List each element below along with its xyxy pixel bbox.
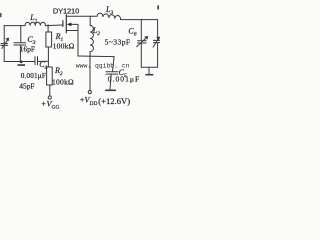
svg-text:+VDD(+12.6V): +VDD(+12.6V) bbox=[80, 96, 130, 107]
svg-text:45pF: 45pF bbox=[19, 81, 34, 90]
svg-text:100kΩ: 100kΩ bbox=[53, 41, 75, 50]
wire: top tank wire left segment bbox=[4, 25, 25, 27]
wire: source lead bbox=[66, 30, 78, 32]
wire: link between bus and R2 bbox=[47, 61, 49, 67]
wire: VDD feed down bbox=[89, 56, 91, 90]
transistor DY1210: substrate arrow bbox=[67, 23, 72, 27]
svg-text:0.001μF: 0.001μF bbox=[108, 75, 140, 84]
wire: left vertical branch lower bbox=[3, 46, 5, 62]
svg-text:+VGG: +VGG bbox=[41, 99, 59, 110]
wire: C3 bottom lead bbox=[19, 45, 21, 62]
wire: C5 drop from bypass bus bbox=[113, 57, 115, 72]
wire: C6 branch lower bbox=[140, 43, 142, 67]
wire: gate wire from L1 to transistor bbox=[46, 24, 63, 27]
variable capacitor C7 (right edge) bbox=[153, 40, 160, 42]
transistor DY1210: channel bar segments bbox=[65, 15, 67, 33]
node: junction dot on bus at C3 bbox=[20, 60, 23, 63]
wire: substrate lead bbox=[71, 23, 78, 25]
wire: R1 bottom lead down to bus bbox=[47, 47, 49, 61]
arrow of trimmer capacitor bbox=[2, 39, 9, 49]
wire: C6 branch upper bbox=[140, 20, 142, 41]
variable capacitor C6 bbox=[138, 41, 147, 43]
wire: C5 ground stem bbox=[110, 74, 111, 89]
capacitor C3 bbox=[14, 43, 26, 45]
wire: R1 top lead bbox=[47, 26, 49, 32]
node: junction of R1 with gate wire bbox=[47, 24, 49, 26]
wire: substrate lead corner down bbox=[77, 24, 79, 30]
svg-text:100kΩ: 100kΩ bbox=[52, 77, 74, 86]
capacitor C5 bbox=[106, 72, 118, 74]
resistor R1 bbox=[46, 32, 52, 47]
cut-off label fragment at top right bbox=[157, 5, 159, 9]
ground (right tank) bbox=[148, 67, 150, 74]
inductor L2 (vertical) bbox=[90, 25, 93, 51]
arrow of variable capacitor C6 bbox=[137, 37, 148, 47]
capacitor C4 (series) bbox=[35, 57, 38, 65]
wire: source/bypass bus bbox=[78, 55, 114, 58]
arrow of variable capacitor C7 bbox=[153, 38, 159, 48]
svg-text:www. qqibb. cn: www. qqibb. cn bbox=[76, 63, 130, 70]
wire: bottom bus right segment bbox=[38, 60, 49, 62]
svg-text:16pF: 16pF bbox=[20, 45, 35, 54]
wire: top right wire bbox=[121, 19, 158, 21]
wire: source drop to bypass bus bbox=[77, 31, 79, 57]
wire: C7 branch lower bbox=[157, 43, 159, 67]
cut-off label fragment at left edge bbox=[0, 13, 2, 17]
wire: C7 branch upper bbox=[157, 20, 159, 40]
wire: C3 top lead bbox=[20, 26, 22, 43]
ground (C5) bbox=[105, 90, 116, 92]
svg-text:DY1210: DY1210 bbox=[53, 6, 79, 15]
trimmer capacitor (variable, left) bbox=[1, 44, 8, 46]
svg-text:C6: C6 bbox=[128, 26, 136, 37]
svg-text:L3: L3 bbox=[105, 5, 113, 16]
wire: left vertical branch upper bbox=[3, 26, 5, 44]
wire: R2 bottom lead bbox=[49, 85, 51, 96]
wire: L2 bottom lead bbox=[89, 52, 91, 57]
inductor L1 bbox=[25, 22, 45, 25]
svg-text:R2: R2 bbox=[54, 66, 63, 77]
terminal VDD bbox=[88, 91, 91, 94]
wire: bottom bus left segment bbox=[4, 61, 35, 63]
ground bar below bus junction bbox=[18, 64, 26, 66]
inductor L3 bbox=[97, 13, 121, 19]
svg-text:0.001μF: 0.001μF bbox=[21, 72, 46, 80]
terminal VGG bbox=[48, 96, 51, 99]
wire: bottom bus right bbox=[141, 66, 157, 68]
transistor DY1210: gate bar bbox=[62, 21, 64, 27]
svg-text:5~33pF: 5~33pF bbox=[105, 37, 131, 46]
wire: L2 tap from drain line bbox=[89, 16, 91, 25]
resistor R2 bbox=[47, 67, 53, 85]
wire: drain line bbox=[66, 15, 97, 17]
